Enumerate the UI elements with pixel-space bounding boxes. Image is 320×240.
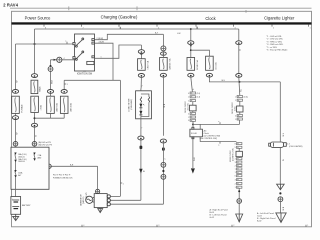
wire W3 down bbox=[50, 71, 52, 96]
meter internal wire top bbox=[141, 94, 149, 97]
generator ground bbox=[99, 208, 101, 209]
wire W1 below fuse bbox=[15, 113, 17, 141]
junction dot W2 bus118 bbox=[34, 117, 36, 119]
svg-text:(CIG): (CIG) bbox=[235, 106, 237, 111]
svg-text:*4 : RHD w/o DRL: *4 : RHD w/o DRL bbox=[267, 44, 285, 46]
svg-text:4: 4 bbox=[188, 113, 189, 115]
connector oval CHG bottom bbox=[138, 74, 144, 78]
svg-text:(2.4): (2.4) bbox=[197, 97, 201, 99]
ignition switch contact 1 bbox=[76, 39, 82, 45]
connector oval W2 upper bbox=[31, 74, 37, 78]
svg-text:(CHG LAMP): (CHG LAMP) bbox=[130, 98, 133, 110]
wire W3 drop to bus118 bbox=[50, 113, 52, 118]
junction circle gauge low1 bbox=[161, 162, 166, 167]
dome connector row 1 bbox=[190, 92, 195, 94]
svg-text:6: 6 bbox=[188, 120, 189, 122]
svg-text:AM2: AM2 bbox=[38, 157, 42, 160]
wire dome down to stack bbox=[191, 77, 193, 92]
wire W2 down bbox=[34, 44, 36, 74]
pin AM left bbox=[73, 43, 75, 45]
wire pin3 to gauge column bbox=[110, 203, 163, 205]
junction circle gauge low2 bbox=[161, 174, 166, 179]
wire lighter down bbox=[279, 147, 281, 184]
connector oval W1 lower bbox=[12, 116, 18, 120]
bus y118 fuse commons bbox=[35, 117, 65, 119]
svg-text:2: 2 bbox=[188, 117, 189, 119]
arrow connector mid meter wire bbox=[139, 169, 142, 174]
dark dot ctrl bbox=[238, 190, 240, 192]
header thick rule bbox=[12, 22, 312, 24]
tick 1 on AM1 bus bbox=[64, 83, 66, 85]
ignition switch box bbox=[75, 34, 95, 71]
junction dot dome branch bbox=[190, 49, 192, 51]
connector oval CHG top bbox=[138, 50, 144, 54]
cigarette lighter element bbox=[271, 142, 284, 147]
wire W1 inside block bbox=[15, 162, 17, 170]
svg-text:4 B-W: 4 B-W bbox=[99, 41, 104, 43]
wire dome mid bbox=[190, 45, 192, 58]
svg-text:1 60A: 1 60A bbox=[40, 105, 43, 111]
svg-text:(CLOCK): (CLOCK) bbox=[188, 103, 190, 110]
svg-text:2 RAV4: 2 RAV4 bbox=[3, 2, 19, 7]
battery ground bbox=[15, 214, 17, 216]
branch dome to cig fuse bbox=[191, 50, 210, 56]
svg-text:F10 ① F11 ② F12 ③: F10 ① F11 ② F12 ③ bbox=[53, 173, 71, 176]
node circle W2 bbox=[32, 142, 37, 147]
tick acc x239 bbox=[239, 49, 241, 51]
svg-text:FUSIBLE LINK BLOCK: FUSIBLE LINK BLOCK bbox=[53, 177, 73, 179]
ctrl row 6 bbox=[237, 168, 242, 170]
wire acc to junction bbox=[239, 77, 240, 95]
arrow connector on y59.8 bbox=[54, 59, 56, 61]
node circle on FL block edge bbox=[47, 164, 51, 168]
svg-text:4: 4 bbox=[235, 115, 236, 117]
svg-text:(B) LHD w/o PS: (B) LHD w/o PS bbox=[39, 145, 53, 147]
svg-text:6: 6 bbox=[235, 176, 236, 178]
tick on clock bottom line bbox=[219, 142, 221, 144]
svg-text:CIG 15A: CIG 15A bbox=[215, 62, 218, 70]
dome connector row 5 bbox=[190, 112, 195, 114]
wire acc stack bbox=[239, 101, 241, 106]
wire W1 into FL block bbox=[15, 146, 17, 152]
svg-text:2: 2 bbox=[235, 96, 236, 98]
svg-text:*3 : RHD w/ DRL: *3 : RHD w/ DRL bbox=[267, 41, 283, 43]
svg-text:L: L bbox=[193, 88, 195, 89]
svg-text:W-L: W-L bbox=[222, 80, 225, 82]
AM1 bus y80.3 bbox=[64, 79, 120, 81]
svg-text:FO-08: FO-08 bbox=[191, 133, 198, 135]
wire W2 below fuse bbox=[34, 112, 36, 141]
wire W4 drop to bus118 bbox=[63, 113, 65, 118]
svg-text:(2.0L): (2.0L) bbox=[244, 96, 249, 98]
svg-text:Charging (Gasoline): Charging (Gasoline) bbox=[101, 15, 138, 20]
svg-text:I 8: I 8 bbox=[83, 71, 85, 73]
connector oval dome top bbox=[188, 41, 194, 45]
svg-text:(2.0): (2.0) bbox=[197, 93, 201, 95]
regulator pin 2 bbox=[107, 199, 110, 202]
acc row 4 bbox=[237, 118, 242, 120]
ctrl row 9 bbox=[237, 179, 242, 181]
svg-text:4: 4 bbox=[64, 58, 65, 60]
ctrl stack row 2 bbox=[237, 146, 242, 148]
connector oval below meter bbox=[138, 136, 144, 140]
dome connector row 6 bbox=[190, 116, 195, 118]
wire W1 upper bbox=[15, 44, 17, 91]
junction dot cig/acc bbox=[238, 81, 240, 83]
svg-text:GAUGE 7.5A: GAUGE 7.5A bbox=[169, 58, 172, 70]
regulator pin 3 bbox=[107, 203, 110, 206]
fuse GAUGE 7.5A bbox=[160, 58, 168, 71]
clock top right pin jog bbox=[193, 123, 239, 125]
svg-text:L-W: L-W bbox=[177, 33, 181, 35]
ctrl row 8 bbox=[237, 175, 242, 177]
tick on riser x120 bbox=[120, 182, 122, 184]
fusible link block box bbox=[11, 147, 49, 189]
ignition switch ST2 box bbox=[87, 61, 94, 64]
pin ST left bbox=[73, 57, 75, 59]
pin ACC right wire bbox=[95, 43, 114, 80]
svg-text:2005-06: 2005-06 bbox=[18, 161, 25, 163]
wire gauge down bbox=[162, 51, 164, 58]
note kick panel clock bbox=[210, 209, 229, 219]
connector oval dome lower bbox=[188, 73, 194, 77]
noise filter box acc bbox=[237, 106, 243, 112]
pin IG1 right wire bbox=[95, 45, 142, 58]
fuse 7.5A CHG bbox=[138, 59, 146, 71]
wire below meter bbox=[140, 119, 142, 201]
svg-text:1: 1 bbox=[235, 100, 236, 102]
wire acc stack 2 bbox=[239, 112, 241, 114]
svg-text:COMB. METER: COMB. METER bbox=[128, 98, 130, 112]
svg-text:W-L: W-L bbox=[283, 133, 285, 136]
generator circle bbox=[86, 196, 93, 203]
node circle W1 bbox=[13, 142, 18, 147]
wire lighter to ground bbox=[279, 202, 281, 213]
connector oval gauge lower bbox=[160, 73, 166, 77]
ignition switch contact 2 bbox=[76, 52, 82, 58]
svg-text:4: 4 bbox=[188, 93, 189, 95]
acc row 2 bbox=[237, 99, 242, 101]
ctrl row 10 bbox=[237, 182, 242, 184]
dome connector row 7 bbox=[190, 119, 195, 121]
grid tick top 1 bbox=[68, 6, 70, 10]
ctrl row 7 bbox=[237, 171, 242, 173]
svg-text:2006 MY: 2006 MY bbox=[86, 192, 88, 200]
svg-text:a: a bbox=[218, 121, 219, 123]
dome connector row 2 bbox=[190, 96, 195, 98]
clock bottom right pin jog bbox=[200, 137, 236, 142]
svg-text:*5 : w/ DRL: *5 : w/ DRL bbox=[267, 47, 278, 49]
svg-text:Clock: Clock bbox=[205, 16, 216, 21]
acc row 1 bbox=[237, 95, 242, 97]
svg-text:W: W bbox=[16, 81, 18, 83]
tick on B1 x197 bbox=[196, 27, 198, 29]
svg-text:(w/o CONTROL SW): (w/o CONTROL SW) bbox=[199, 138, 217, 140]
note kick panel lighter bbox=[257, 212, 276, 222]
fusible link ALT lower bbox=[15, 170, 16, 177]
tick a2 on B1 bbox=[119, 27, 121, 29]
svg-text:W-L: W-L bbox=[241, 89, 243, 92]
node circle W3 top bbox=[48, 67, 53, 72]
wire to clock pin bbox=[192, 121, 194, 129]
svg-text:AM1 40A: AM1 40A bbox=[69, 103, 72, 112]
ground acc column bbox=[236, 214, 243, 222]
svg-text:(1AZ-FE): (1AZ-FE) bbox=[82, 196, 85, 204]
column reference ticks bbox=[44, 25, 312, 30]
fuse FL MAIN bbox=[12, 96, 20, 113]
connector oval gauge upper bbox=[161, 52, 167, 55]
meter coil 2 bbox=[148, 97, 149, 103]
riser x120 alternator feed bbox=[119, 80, 121, 196]
svg-text:a: a bbox=[65, 40, 66, 42]
svg-text:W: W bbox=[16, 133, 18, 135]
top page rule bbox=[10, 7, 312, 9]
wire bus y44 battery feed bbox=[16, 43, 75, 45]
ctrl row 5 bbox=[237, 164, 242, 166]
svg-text:IGNITION SW: IGNITION SW bbox=[77, 73, 93, 76]
noise filter box clock bbox=[190, 105, 197, 111]
dark connector below meter bbox=[140, 146, 143, 149]
grid tick top 3 bbox=[196, 26, 198, 29]
svg-text:a: a bbox=[118, 25, 119, 27]
regulator pin 1 bbox=[107, 195, 110, 198]
ctrl stack row 1 bbox=[237, 143, 242, 145]
dome column drop bbox=[190, 29, 192, 41]
wire to CHG fuse bbox=[140, 45, 142, 50]
svg-text:2: 2 bbox=[235, 165, 236, 167]
svg-text:1: 1 bbox=[101, 57, 102, 59]
wire pin1 to riser bbox=[110, 195, 120, 197]
lighter feed drop bbox=[279, 82, 281, 142]
dark dot dome bbox=[190, 45, 192, 47]
svg-text:1: 1 bbox=[235, 172, 236, 174]
connector oval W1 upper bbox=[12, 90, 18, 94]
svg-text:2 (B-W): 2 (B-W) bbox=[97, 38, 104, 40]
svg-text:(w/ CONTROL SW): (w/ CONTROL SW) bbox=[204, 135, 221, 137]
svg-text:Cigarette Lighter: Cigarette Lighter bbox=[264, 16, 295, 21]
ctrl row 11 bbox=[237, 186, 242, 188]
clock pin bottom bbox=[192, 137, 194, 139]
clock pin top bbox=[192, 127, 194, 129]
dark connector gauge bbox=[162, 148, 165, 151]
connector oval acc top bbox=[236, 41, 242, 45]
fuse DOME 15A bbox=[187, 58, 195, 71]
connector oval gauge mid bbox=[160, 139, 166, 143]
svg-text:1: 1 bbox=[235, 187, 236, 189]
battery plates bbox=[12, 199, 19, 201]
svg-text:2: 2 bbox=[235, 183, 236, 185]
svg-text:FL MAIN: FL MAIN bbox=[21, 104, 24, 112]
wire acc upper bbox=[238, 45, 240, 52]
grid tick top 2 bbox=[136, 6, 138, 10]
svg-text:W: W bbox=[283, 159, 285, 161]
dark dot gauge bbox=[162, 170, 164, 172]
acc row 3 bbox=[237, 114, 242, 116]
generator brush links bbox=[93, 197, 94, 199]
junction circle lighter bbox=[278, 197, 283, 202]
svg-text:2: 2 bbox=[164, 158, 166, 159]
meter internal wire bbox=[140, 102, 142, 119]
svg-text:4: 4 bbox=[235, 159, 236, 161]
bottom frame ticks bbox=[82, 225, 309, 227]
meter coil 1 bbox=[140, 97, 141, 103]
fusible link MAIN box bbox=[31, 80, 38, 93]
ignition switch inner pins bbox=[92, 39, 94, 41]
svg-text:W-R: W-R bbox=[51, 79, 53, 84]
svg-text:MAIN: MAIN bbox=[39, 86, 42, 92]
fuse CIG 15A bbox=[206, 56, 214, 70]
connector oval acc lower bbox=[236, 74, 242, 78]
wire W3 top corner bbox=[50, 60, 52, 65]
tick a on bus44 bbox=[66, 42, 68, 44]
svg-text:*2 : LHD w/o DRL: *2 : LHD w/o DRL bbox=[267, 39, 284, 41]
acc column corner from B1 bbox=[238, 29, 240, 41]
voltage regulator box bbox=[94, 194, 107, 208]
svg-text:3: 3 bbox=[235, 180, 236, 182]
fuse AM2 30A bbox=[47, 96, 55, 113]
svg-text:8: 8 bbox=[235, 144, 236, 146]
wire ctrl stack 2 bbox=[238, 156, 240, 159]
junction circle A bbox=[57, 57, 62, 62]
battery box bbox=[11, 197, 21, 215]
meter internal wire right bbox=[141, 102, 149, 116]
tick on clock top line bbox=[219, 122, 221, 124]
wire CHG to meter bbox=[140, 77, 142, 88]
switch feed line y59.8 bbox=[51, 59, 75, 61]
wire B+ down to generator bbox=[97, 166, 99, 189]
wire dome stack 2 bbox=[192, 111, 194, 113]
ctrl row 3 bbox=[237, 158, 242, 160]
junction circle ctrl bbox=[237, 199, 242, 204]
junction dot dome top bbox=[190, 28, 192, 30]
wire acc mid bbox=[238, 52, 240, 73]
wire acc stack bottom to clock line bbox=[239, 120, 241, 124]
wire ctrl down bbox=[238, 188, 240, 198]
svg-text:a: a bbox=[218, 145, 219, 147]
wire W2 into FL block bbox=[34, 146, 36, 152]
combination meter box bbox=[136, 91, 152, 119]
connector oval cig lower bbox=[206, 73, 212, 77]
wire cig to junction bbox=[209, 77, 280, 82]
connector oval W4 bbox=[61, 90, 67, 94]
dark dot W3 bbox=[50, 65, 52, 67]
dome connector row 3 bbox=[190, 100, 195, 102]
svg-text:Power Source: Power Source bbox=[25, 15, 51, 20]
wire gauge lower bbox=[162, 140, 164, 204]
clock bottom left wire bbox=[192, 137, 194, 168]
dark dot CHG bbox=[141, 53, 143, 55]
grid tick top 4 bbox=[245, 10, 247, 13]
wire ctrl to ground bbox=[238, 203, 240, 214]
wire W2 top riser bbox=[34, 29, 36, 44]
clock ground arrow bbox=[191, 168, 195, 173]
junction clock top line bbox=[192, 124, 194, 126]
meter LED 2 bbox=[139, 111, 142, 115]
noise filter box ctrl bbox=[236, 151, 242, 156]
svg-text:*6 : Except TMC Made: *6 : Except TMC Made bbox=[267, 49, 289, 52]
svg-text:(CIG LIGHTER): (CIG LIGHTER) bbox=[289, 146, 303, 148]
connector pair arrow lighter bbox=[277, 184, 285, 190]
wire dome stack bbox=[192, 102, 194, 106]
ground lighter bbox=[276, 213, 286, 223]
svg-text:1: 1 bbox=[123, 183, 124, 185]
wire meter to regulator pin2 bbox=[110, 199, 140, 201]
fuse AM1 40A bbox=[60, 96, 68, 113]
svg-text:1: 1 bbox=[67, 84, 68, 86]
connector oval W2 lower bbox=[31, 123, 37, 127]
legend DRL notes bbox=[267, 36, 289, 52]
fusible link ALT main bbox=[15, 153, 16, 163]
svg-text:3: 3 bbox=[235, 162, 236, 164]
svg-text:BATTERY: BATTERY bbox=[22, 204, 31, 207]
svg-text:1: 1 bbox=[188, 101, 189, 103]
ctrl row 4 bbox=[237, 161, 242, 163]
fusible link AM2 bbox=[34, 153, 35, 161]
wire CHG bbox=[140, 54, 142, 59]
svg-text:GENERATOR: GENERATOR bbox=[79, 194, 82, 206]
clock box bbox=[190, 129, 203, 137]
junction dot wire2/bus44 bbox=[34, 43, 36, 45]
generator B terminal bbox=[96, 189, 100, 193]
meter LED 1 bbox=[139, 104, 142, 108]
gauge column top corner bbox=[162, 34, 164, 46]
svg-text:AM2 30A: AM2 30A bbox=[56, 103, 59, 112]
wire ctrl stack bbox=[238, 148, 240, 151]
svg-text:*1 : LHD w/ DRL: *1 : LHD w/ DRL bbox=[267, 36, 283, 38]
svg-text:7: 7 bbox=[235, 169, 236, 171]
svg-text:2: 2 bbox=[188, 97, 189, 99]
bus B1 y29 bbox=[35, 28, 239, 30]
fuse W2 second bbox=[31, 96, 39, 112]
svg-text:5: 5 bbox=[235, 147, 236, 149]
wire B+ from FL block bbox=[49, 165, 98, 167]
junction circle gauge top bbox=[161, 46, 166, 51]
connector oval W3 bbox=[47, 90, 53, 94]
svg-text:CHG 7.5A: CHG 7.5A bbox=[147, 60, 150, 69]
svg-text:3: 3 bbox=[235, 119, 236, 121]
svg-text:DOME 15A: DOME 15A bbox=[196, 59, 199, 69]
dark dot lighter bbox=[279, 192, 281, 194]
wire W4 from bus bbox=[63, 80, 65, 89]
pin AM2 right wire bbox=[95, 34, 164, 39]
